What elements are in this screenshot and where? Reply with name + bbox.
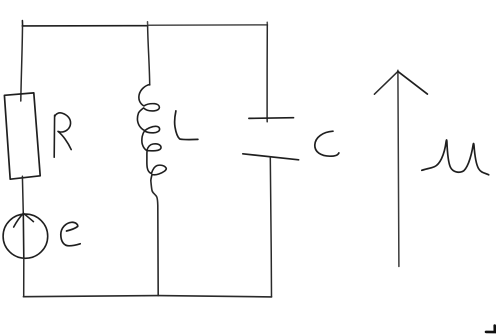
source e circle	[3, 214, 48, 258]
arrow u right barb	[398, 71, 428, 94]
wire top-left segment	[22, 21, 147, 27]
arrow u vertical	[398, 70, 399, 266]
label C	[315, 131, 339, 156]
wire bottom	[23, 296, 271, 297]
label e	[61, 222, 80, 246]
arrow u left barb	[374, 71, 398, 94]
label R	[54, 113, 71, 157]
corner mark	[486, 326, 496, 333]
resistor R	[4, 93, 40, 179]
inductor L coil	[137, 85, 166, 181]
wire inductor bottom	[151, 181, 158, 296]
wire source to bottom	[23, 258, 25, 296]
capacitor plate 1	[249, 117, 294, 120]
wire resistor to source	[21, 176, 24, 214]
wire top-right segment	[148, 22, 268, 26]
capacitor plate 2	[243, 154, 299, 160]
wire capacitor top	[266, 25, 268, 122]
wire left vertical	[21, 26, 23, 101]
label L	[175, 111, 198, 140]
wire capacitor bottom	[270, 157, 271, 297]
source arrow	[14, 213, 34, 259]
label u	[422, 140, 489, 175]
wire inductor top	[148, 26, 150, 85]
